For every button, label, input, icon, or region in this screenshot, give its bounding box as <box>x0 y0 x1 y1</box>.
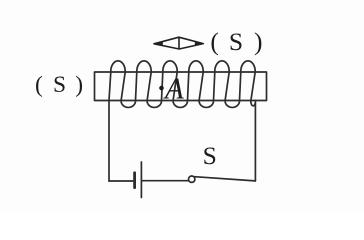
svg-text:S: S <box>203 141 217 170</box>
svg-text:A: A <box>163 70 185 105</box>
svg-text:S: S <box>53 72 66 98</box>
svg-text:S: S <box>229 27 243 56</box>
svg-text:(: ( <box>210 27 219 56</box>
svg-text:): ) <box>254 27 263 56</box>
svg-text:(: ( <box>35 72 43 98</box>
svg-text:): ) <box>75 72 83 98</box>
